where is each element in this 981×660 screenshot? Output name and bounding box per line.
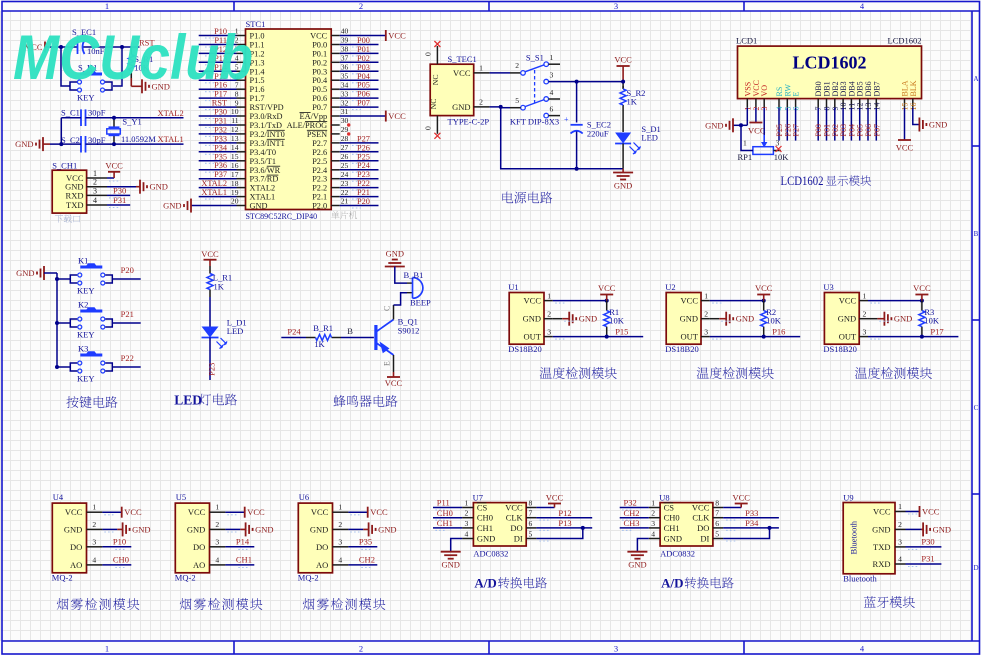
svg-text:GND: GND — [477, 534, 495, 544]
net attach marks (U6) — [350, 514, 361, 516]
no-erc cross top (S_TEC1) — [434, 41, 440, 47]
push button K3 KEY — [80, 354, 102, 357]
caption dianyuan dianlu — [502, 192, 513, 203]
svg-text:1: 1 — [704, 292, 708, 301]
svg-text:4: 4 — [93, 196, 97, 205]
switch pin stubs — [549, 63, 561, 65]
svg-text:KEY: KEY — [77, 285, 94, 295]
power port VCC (U9) — [906, 511, 920, 513]
svg-text:10K: 10K — [774, 152, 790, 162]
power port VCC (reset) — [44, 42, 46, 53]
mcu pin 40 VCC — [331, 35, 340, 37]
smoke sensor U4 MQ-2 body — [52, 503, 86, 573]
svg-text:P0.3: P0.3 — [312, 67, 327, 76]
svg-text:11.0592M: 11.0592M — [121, 134, 156, 144]
svg-text:P06: P06 — [357, 90, 370, 99]
svg-text:28: 28 — [341, 134, 349, 143]
wire net P15 (mcu left) — [199, 79, 237, 81]
wire net P24 (mcu right) — [340, 169, 379, 171]
wire TEC1 pin1 to switch — [490, 72, 510, 74]
svg-text:22: 22 — [341, 188, 349, 197]
mcu pin 37 P0.2 — [331, 61, 340, 63]
wire key K1 left — [57, 278, 70, 280]
resistor L_R1 1K — [209, 266, 211, 274]
svg-text:2: 2 — [898, 520, 902, 529]
wire net P01 (mcu right) — [340, 52, 379, 54]
resistor R2 10K (U2) — [763, 301, 765, 311]
svg-text:1: 1 — [479, 64, 483, 73]
svg-text:K2: K2 — [78, 300, 88, 310]
caption yanwu jiance mokuai (U5) — [180, 598, 192, 610]
svg-text:15: 15 — [231, 152, 239, 161]
svg-text:1: 1 — [93, 169, 97, 178]
adc U7 ADC0832 body — [473, 503, 526, 546]
ground (keys) — [43, 266, 45, 280]
no-connect pin29 PSEN — [347, 132, 350, 135]
svg-text:P14: P14 — [236, 536, 250, 546]
mcu pin 34 P0.5 — [331, 88, 340, 90]
svg-text:P03: P03 — [357, 63, 370, 72]
svg-text:VCC: VCC — [388, 31, 406, 41]
resistor R3 10K (U3) — [921, 301, 923, 311]
svg-text:MQ-2: MQ-2 — [298, 573, 319, 583]
svg-text:4: 4 — [465, 530, 469, 539]
ground (U8) — [637, 539, 648, 552]
pin 6 DO (U8) — [713, 527, 723, 529]
svg-text:P22: P22 — [357, 179, 370, 188]
wire power gnd rail right — [577, 168, 624, 170]
junction (lcd rp1) — [739, 123, 743, 127]
mcu pin 35 P0.4 — [331, 79, 340, 81]
svg-text:P20: P20 — [357, 197, 370, 206]
caption yanwu jiance mokuai (U4) — [57, 598, 69, 610]
led S_D1 LED — [622, 108, 624, 132]
svg-text:CH3: CH3 — [624, 518, 640, 528]
svg-text:P32: P32 — [624, 498, 637, 508]
svg-text:7: 7 — [715, 509, 719, 518]
svg-text:RST/VPD: RST/VPD — [250, 103, 284, 112]
wire pin1 to VCC (U3) — [868, 300, 922, 302]
svg-text:1: 1 — [105, 1, 109, 11]
svg-text:VCC: VCC — [201, 249, 219, 259]
svg-text:P02: P02 — [357, 54, 370, 63]
svg-text:P25: P25 — [357, 152, 370, 161]
wire pin3 out (U1) — [553, 336, 643, 338]
power port VCC (mcu pin40) — [340, 35, 386, 37]
power port VCC (mcu pin31 EA) — [340, 115, 386, 117]
svg-text:P0.6: P0.6 — [312, 94, 327, 103]
buzzer B_B1 BEEP — [407, 282, 413, 284]
svg-text:S_C1: S_C1 — [61, 107, 80, 117]
pin 5 DI (U7) — [526, 538, 536, 540]
svg-text:2: 2 — [651, 509, 655, 518]
svg-text:1: 1 — [743, 139, 747, 148]
pin 4 AO (U6) — [333, 564, 349, 566]
svg-text:29: 29 — [341, 125, 349, 134]
wire net P34 (mcu left) — [199, 151, 237, 153]
mcu pin 36 P0.3 — [331, 70, 340, 72]
net attach marks (U4) — [104, 514, 115, 516]
svg-text:P2.7: P2.7 — [312, 139, 327, 148]
svg-text:1: 1 — [898, 502, 902, 511]
svg-text:37: 37 — [341, 54, 349, 63]
ground (U4) — [102, 528, 117, 530]
svg-text:CH0: CH0 — [664, 513, 680, 523]
junction (bus K3) — [55, 365, 59, 369]
svg-text:STC89C52RC_DIP40: STC89C52RC_DIP40 — [246, 212, 318, 221]
svg-text:K1: K1 — [78, 256, 88, 266]
resistor S_R1 10K (reset) — [130, 47, 132, 55]
svg-text:6: 6 — [550, 105, 554, 114]
svg-text:2: 2 — [338, 520, 342, 529]
pin 3 DO (U6) — [333, 546, 349, 548]
wire buzzer to collector — [394, 293, 408, 305]
wire DI join (U8) — [723, 528, 769, 539]
ground (mcu pin20) — [191, 205, 237, 207]
svg-text:P2.6: P2.6 — [312, 148, 327, 157]
svg-text:P27: P27 — [792, 124, 801, 136]
pin 4 AO (U4) — [87, 564, 103, 566]
lcd LCD1 body — [738, 46, 922, 99]
svg-text:P34: P34 — [214, 143, 228, 152]
svg-text:KEY: KEY — [77, 92, 94, 102]
ground (U3) — [868, 318, 877, 320]
wire net P26 (mcu right) — [340, 151, 379, 153]
junction (EC2 bottom) — [575, 167, 579, 171]
pin 1 VCC (U3) — [859, 300, 868, 302]
svg-text:GND: GND — [680, 314, 698, 324]
svg-text:CH0: CH0 — [477, 513, 493, 523]
svg-text:GND: GND — [378, 524, 396, 534]
svg-text:CH0: CH0 — [113, 554, 129, 564]
svg-text:19: 19 — [231, 188, 239, 197]
svg-text:5: 5 — [715, 530, 719, 539]
svg-text:OUT: OUT — [839, 332, 857, 342]
caption wendu jiance mokuai (U3) — [855, 367, 867, 379]
svg-text:XTAL2: XTAL2 — [250, 184, 276, 193]
svg-text:17: 17 — [231, 170, 239, 179]
mcu pin 6 P1.5 — [237, 79, 246, 81]
svg-text:P2.0: P2.0 — [312, 202, 327, 211]
power port VCC (lcd pin2) — [755, 108, 757, 123]
svg-text:A/D: A/D — [661, 576, 683, 591]
svg-text:4: 4 — [550, 88, 554, 97]
mcu pin 9 RST/VPD — [237, 106, 246, 108]
junction (U2 out) — [762, 335, 766, 339]
mcu pin 25 P2.4 — [331, 169, 340, 171]
svg-text:RXD: RXD — [66, 190, 84, 200]
wire net P35 (mcu left) — [199, 160, 237, 162]
svg-text:RP1: RP1 — [738, 152, 753, 162]
no-erc cross bottom (S_TEC1) — [434, 133, 440, 139]
mcu pin 20 GND — [237, 205, 246, 207]
wire CH1 (U7) — [433, 527, 462, 529]
lcd RS RW E wires — [778, 108, 780, 141]
svg-text:GND: GND — [523, 314, 541, 324]
svg-text:U2: U2 — [665, 282, 675, 292]
svg-text:Bluetooth: Bluetooth — [843, 574, 877, 584]
junction (bus K2) — [55, 321, 59, 325]
svg-text:2: 2 — [93, 178, 97, 187]
mcu pin 19 XTAL1 — [237, 196, 246, 198]
ground (lcd right) — [918, 118, 920, 132]
svg-text:VCC: VCC — [922, 507, 940, 517]
svg-text:P13: P13 — [558, 518, 571, 528]
svg-text:P24: P24 — [287, 326, 301, 336]
pin 1 VCC (U5) — [210, 511, 226, 513]
svg-text:20: 20 — [231, 197, 239, 206]
svg-text:U9: U9 — [843, 493, 853, 503]
svg-text:P3.3/INT1: P3.3/INT1 — [250, 139, 285, 148]
svg-text:P16: P16 — [772, 326, 785, 336]
svg-text:PSEN: PSEN — [307, 130, 327, 139]
svg-text:S_S1: S_S1 — [526, 53, 544, 63]
pin 1 VCC (S_TEC1) — [474, 72, 490, 74]
junction (crystal bottom) — [112, 142, 116, 146]
svg-text:XTAL2: XTAL2 — [158, 108, 184, 118]
svg-text:LED: LED — [641, 133, 658, 143]
svg-text:XTAL2: XTAL2 — [201, 179, 227, 188]
svg-text:P35: P35 — [359, 536, 372, 546]
potentiometer RP1 10K — [753, 147, 774, 155]
caption yanwu jiance mokuai (U6) — [303, 598, 315, 610]
pin 4 TXD (S_CH1) — [87, 204, 107, 206]
svg-text:P01: P01 — [357, 45, 370, 54]
svg-text:E: E — [792, 92, 801, 97]
svg-text:GND: GND — [872, 524, 890, 534]
pin 8 VCC (U7) — [526, 507, 536, 509]
svg-text:P21: P21 — [357, 188, 370, 197]
svg-text:2: 2 — [359, 644, 363, 654]
pin 2 GND (S_CH1) — [87, 186, 107, 188]
power port VCC (U7) — [536, 507, 554, 509]
wire TEC1 pin2 to gnd rail — [490, 107, 577, 169]
mcu pin 22 P2.1 — [331, 196, 340, 198]
svg-text:1: 1 — [465, 499, 469, 508]
svg-text:OUT: OUT — [681, 332, 699, 342]
svg-text:1K: 1K — [627, 97, 638, 107]
pin 2 GND (U3) — [859, 318, 868, 320]
wire XTAL1 row — [86, 143, 184, 145]
mcu pin 30 ALE/PROG — [331, 124, 340, 126]
svg-text:25: 25 — [341, 161, 349, 170]
svg-text:GND: GND — [163, 201, 181, 211]
svg-text:XTAL1: XTAL1 — [250, 193, 276, 202]
svg-text:P34: P34 — [745, 518, 759, 528]
svg-text:GND: GND — [250, 202, 268, 211]
caption fengmingqi dianlu — [333, 395, 345, 407]
svg-text:B: B — [347, 326, 353, 336]
svg-text:1: 1 — [863, 292, 867, 301]
svg-text:VCC: VCC — [681, 296, 699, 306]
svg-text:VCC: VCC — [370, 507, 388, 517]
svg-text:32: 32 — [341, 98, 349, 107]
svg-text:U8: U8 — [659, 492, 669, 502]
svg-text:GND: GND — [705, 120, 723, 130]
wire net P25 (mcu right) — [340, 160, 379, 162]
svg-text:P2.1: P2.1 — [312, 193, 327, 202]
junction (reset left) — [59, 45, 63, 49]
wire net P12 (mcu left) — [199, 52, 237, 54]
svg-text:LED: LED — [227, 326, 244, 336]
junction (U7 DI-DO) — [581, 526, 585, 530]
svg-text:P2.5: P2.5 — [312, 157, 327, 166]
svg-text:P31: P31 — [113, 195, 126, 205]
svg-text:P0.2: P0.2 — [312, 58, 327, 67]
svg-text:P32: P32 — [214, 125, 227, 134]
pin 1 VCC (U9) — [895, 511, 906, 513]
svg-text:A/D: A/D — [474, 576, 496, 591]
svg-text:VCC: VCC — [310, 32, 328, 41]
pin 4 GND (U7) — [462, 538, 473, 540]
svg-text:DO: DO — [510, 523, 522, 533]
svg-text:GND: GND — [929, 120, 947, 130]
svg-text:4: 4 — [92, 555, 96, 564]
svg-text:P0.4: P0.4 — [312, 76, 328, 85]
crystal S_Y1 11.0592M — [113, 118, 115, 128]
power port VCC (S_CH1) — [107, 177, 114, 179]
svg-text:B_R1: B_R1 — [313, 323, 333, 333]
svg-text:39: 39 — [341, 36, 349, 45]
wire P31 (S_CH1) — [107, 204, 130, 206]
svg-text:4: 4 — [651, 530, 655, 539]
smoke sensor U5 MQ-2 body — [175, 503, 209, 573]
svg-text:P20: P20 — [121, 265, 134, 275]
svg-text:EA/Vpp: EA/Vpp — [300, 112, 328, 121]
svg-text:DB7: DB7 — [872, 81, 881, 96]
wire net P11 (mcu left) — [199, 44, 237, 46]
svg-text:S_CH1: S_CH1 — [52, 160, 77, 170]
lcd data wires P00-P07 — [817, 108, 819, 141]
svg-text:CH1: CH1 — [236, 554, 252, 564]
svg-text:10K: 10K — [924, 316, 940, 326]
svg-text:DS18B20: DS18B20 — [665, 344, 699, 354]
svg-text:3: 3 — [614, 1, 618, 11]
ground (reset) — [130, 78, 132, 86]
adc U8 ADC0832 body — [660, 503, 713, 546]
mcu pin 4 P1.3 — [237, 61, 246, 63]
mcu pin 14 P3.4/T0 — [237, 151, 246, 153]
svg-text:VCC: VCC — [873, 507, 891, 517]
ground (U1) — [553, 318, 562, 320]
ground (U2) — [710, 318, 719, 320]
svg-text:P31: P31 — [921, 554, 934, 564]
svg-text:3: 3 — [215, 537, 219, 546]
svg-text:DI: DI — [700, 534, 709, 544]
pin 7 CLK (U8) — [713, 517, 723, 519]
mcu pin 5 P1.4 — [237, 70, 246, 72]
svg-text:5: 5 — [529, 530, 533, 539]
wire DO (U5) — [225, 546, 254, 548]
svg-text:VCC: VCC — [755, 283, 773, 293]
svg-text:30: 30 — [341, 116, 349, 125]
svg-text:CS: CS — [664, 503, 675, 513]
svg-text:CS: CS — [477, 503, 488, 513]
ground (U7) — [451, 539, 462, 552]
pin 2 GND (U9) — [895, 528, 906, 530]
wire net P03 (mcu right) — [340, 70, 379, 72]
pin 4 RXD (U9) — [895, 563, 906, 565]
junction (U1 vcc) — [605, 299, 609, 303]
junction (reset right) — [120, 45, 124, 49]
svg-text:GND: GND — [15, 139, 33, 149]
ground (buzzer) — [385, 266, 405, 268]
svg-text:A: A — [973, 75, 978, 83]
svg-text:1: 1 — [105, 644, 109, 654]
wire pin3 out (U2) — [710, 336, 800, 338]
wire VCC to RST node — [45, 46, 78, 48]
pin NC bottom (S_TEC1) — [436, 116, 438, 134]
wire P13 (U7) — [536, 527, 592, 529]
svg-text:MCUclub: MCUclub — [13, 23, 253, 93]
wire CH0 (U7) — [433, 517, 462, 519]
svg-text:36: 36 — [341, 63, 349, 72]
junction (U1 out) — [605, 335, 609, 339]
pin 1 CS (U7) — [462, 507, 473, 509]
svg-text:NC: NC — [431, 74, 440, 85]
svg-text:8: 8 — [715, 499, 719, 508]
mcu pin 1 P1.0 — [237, 35, 246, 37]
wire P32 (U8) — [620, 507, 649, 509]
power port VCC (U6) — [348, 511, 367, 513]
svg-text:3: 3 — [651, 519, 655, 528]
svg-text:P35: P35 — [214, 152, 227, 161]
svg-text:3: 3 — [93, 186, 97, 195]
wire key K1 right — [113, 278, 141, 280]
ground (U6) — [348, 528, 363, 530]
svg-text:P23: P23 — [207, 363, 217, 376]
pin 3 DO (U4) — [87, 546, 103, 548]
net attach marks (lcd) — [778, 113, 780, 121]
svg-text:10: 10 — [231, 107, 239, 116]
svg-text:U6: U6 — [299, 492, 309, 502]
svg-text:U5: U5 — [176, 492, 186, 502]
wire P33 (U8) — [723, 517, 779, 519]
temp sensor U1 DS18B20 body — [509, 293, 544, 345]
mcu pin 39 P0.0 — [331, 44, 340, 46]
svg-text:VCC: VCC — [748, 126, 766, 136]
svg-text:OUT: OUT — [524, 332, 542, 342]
mcu pin 23 P2.2 — [331, 187, 340, 189]
svg-text:VCC: VCC — [614, 55, 632, 65]
svg-text:LCD1602: LCD1602 — [888, 36, 922, 46]
svg-text:RST: RST — [212, 99, 227, 108]
svg-text:VCC: VCC — [124, 507, 142, 517]
svg-text:1: 1 — [651, 499, 655, 508]
svg-text:P37: P37 — [214, 170, 227, 179]
svg-text:12: 12 — [231, 125, 239, 134]
mcu pin 24 P2.3 — [331, 178, 340, 180]
pin 2 CH0 (U8) — [649, 517, 660, 519]
wire net P17 (mcu left) — [199, 97, 237, 99]
svg-text:DO: DO — [697, 523, 709, 533]
svg-text:P3.6/WR: P3.6/WR — [250, 166, 281, 175]
wire net P23 (mcu right) — [340, 178, 379, 180]
pin 2 GND (U2) — [701, 318, 710, 320]
svg-text:XTAL1: XTAL1 — [201, 188, 227, 197]
svg-text:3: 3 — [547, 328, 551, 337]
pin 3 CH1 (U7) — [462, 527, 473, 529]
mcu pin 15 P3.5/T1 — [237, 160, 246, 162]
power port VCC (U5) — [225, 511, 244, 513]
svg-text:VCC: VCC — [105, 160, 123, 170]
svg-text:CLK: CLK — [692, 513, 710, 523]
svg-text:3: 3 — [465, 519, 469, 528]
temp sensor U2 DS18B20 body — [666, 293, 701, 345]
pin 1 VCC (S_CH1) — [87, 177, 107, 179]
svg-text:P21: P21 — [121, 309, 134, 319]
svg-text:P0.1: P0.1 — [312, 49, 327, 58]
